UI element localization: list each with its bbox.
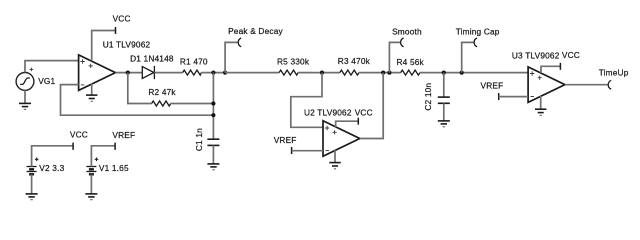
node Peak & Decay junction [223,71,227,75]
wire node column down to C1 [212,73,214,140]
VCC terminal U3 [560,50,580,70]
wire U3 ground pin [540,96,542,109]
node C2 junction [442,71,446,75]
wire R4 to U3 [420,72,528,74]
svg-text:R1 470: R1 470 [180,56,208,66]
battery V2 3.3 [27,158,65,175]
resistor R1 470 [180,56,208,75]
node R2 junction [211,101,215,105]
VCC terminal U1 [113,14,131,35]
VCC terminal V2 [70,129,88,150]
wire C1 to ground [212,145,214,164]
node Smooth junction [387,71,391,75]
wire U1 output [115,72,142,74]
wire VG1 bottom to ground [24,90,26,103]
svg-text:C1 1n: C1 1n [194,128,204,151]
wire down to C2 [443,73,445,98]
wire VREF to U3 -in [499,96,528,98]
wire to Smooth test point [389,42,400,72]
wire to Peak & Decay test point [225,42,238,72]
wire R2 to node column [171,103,214,105]
resistor R4 56k [397,57,425,75]
ground below V1 [85,194,97,200]
svg-text:Peak & Decay: Peak & Decay [228,26,283,36]
capacitor C1 1n [194,128,219,151]
wire V2 top to VCC [32,146,74,167]
wire U3 VCC pin [541,66,560,73]
wire V2 bottom to ground [31,174,33,194]
capacitor C2 10n [423,83,450,111]
svg-text:U1 TLV9062: U1 TLV9062 [103,40,151,50]
ground below C1 [207,164,219,170]
wire R3 to R4 [359,72,401,74]
battery V1 1.65 [86,158,129,175]
wire R5 to R3 [298,72,340,74]
test point TimeUp [599,68,629,89]
svg-text:TimeUp: TimeUp [599,68,629,78]
wire C2 to ground [443,103,445,121]
wire VG1 top to U1 +in [25,61,79,73]
resistor R5 330k [277,56,310,75]
svg-text:R5 330k: R5 330k [277,56,310,66]
svg-text:VCC: VCC [562,50,580,60]
svg-text:R4 56k: R4 56k [397,57,425,67]
test point Smooth [392,27,422,47]
svg-text:U3 TLV9062: U3 TLV9062 [512,51,560,61]
wire V1 top to VREF [91,146,115,167]
wire U3 output [565,84,608,86]
voltage generator VG1 [16,68,55,91]
svg-text:V1 1.65: V1 1.65 [99,163,129,173]
svg-text:C2 10n: C2 10n [423,83,433,111]
test point Peak & Decay [228,26,283,47]
op-amp U2 TLV9062 [304,108,360,157]
node B (R5/R3/U2+ junction) [320,71,324,75]
svg-text:VREF: VREF [481,81,504,91]
svg-text:Smooth: Smooth [392,27,422,37]
wire U1 ground pin [91,84,93,96]
wire U2 output up to node [360,73,383,139]
svg-text:V2 3.3: V2 3.3 [39,163,64,173]
wire node to R5 [225,72,279,74]
wire junction down to R2 [128,73,152,104]
wire R1 to node [201,72,225,74]
node output junction [126,71,130,75]
svg-text:R3 470k: R3 470k [338,56,371,66]
wire D1 to R1 [154,72,182,74]
diode D1 1N4148 [130,53,174,79]
VREF terminal U3 [481,81,504,100]
svg-text:VREF: VREF [112,130,135,140]
wire VREF to U2 -in [292,150,323,152]
svg-text:Timing Cap: Timing Cap [456,27,500,37]
svg-text:VCC: VCC [70,129,88,139]
node A (R1/R2/C1 junction) [211,71,215,75]
ground below C2 [438,121,450,127]
wire node B down to U2 +in [291,73,323,128]
VREF terminal U2 [274,135,297,154]
test point Timing Cap [456,27,500,47]
ground below U1 [86,95,97,101]
node Timing Cap junction [460,71,464,75]
op-amp U3 TLV9062 [512,51,565,103]
ground below V2 [26,194,38,200]
node U2 output junction [381,71,385,75]
op-amp U1 TLV9062 [79,40,151,91]
wire V1 bottom to ground [90,174,92,194]
ground below U2 [329,163,340,169]
VCC terminal U2 [355,108,373,125]
svg-text:VCC: VCC [355,108,373,118]
ground below VG1 [19,103,31,109]
svg-text:D1 1N4148: D1 1N4148 [130,53,174,63]
ground below U3 [535,109,546,115]
wire U2 VCC pin [336,121,359,127]
resistor R3 470k [338,56,371,75]
wire to Timing Cap test point [462,42,474,72]
svg-text:VCC: VCC [113,14,131,24]
wire U1 VCC pin [92,31,116,61]
svg-text:VG1: VG1 [38,76,55,86]
svg-text:R2 47k: R2 47k [148,87,176,97]
svg-text:VREF: VREF [274,135,297,145]
VREF terminal V1 [112,130,135,150]
resistor R2 47k [148,87,176,106]
svg-text:U2 TLV9062: U2 TLV9062 [304,108,352,118]
wire U1 -in feedback loop [61,85,214,116]
node feedback junction [211,113,215,117]
wire U2 ground pin [334,150,336,162]
